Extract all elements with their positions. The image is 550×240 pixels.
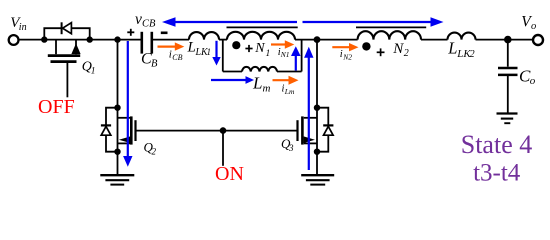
svg-text:1: 1 [207,47,212,57]
svg-text:L: L [252,74,262,93]
svg-text:N: N [254,41,265,56]
svg-text:CB: CB [172,53,182,62]
svg-text:in: in [19,22,27,33]
svg-text:N: N [392,41,404,57]
svg-text:2: 2 [404,48,409,59]
svg-text:2: 2 [470,49,475,60]
svg-text:v: v [135,11,142,28]
svg-text:3: 3 [288,143,294,153]
svg-text:Lm: Lm [284,87,295,96]
svg-text:ON: ON [215,163,244,185]
svg-text:o: o [530,75,536,87]
svg-text:CB: CB [142,19,156,30]
svg-text:t3-t4: t3-t4 [473,160,521,187]
svg-text:N2: N2 [342,53,352,62]
svg-text:o: o [531,21,536,32]
svg-text:m: m [263,83,271,95]
svg-text:OFF: OFF [38,96,75,118]
svg-text:1: 1 [266,49,271,59]
svg-text:State 4: State 4 [461,130,533,159]
svg-text:B: B [151,59,158,70]
svg-text:L: L [187,40,196,56]
svg-text:2: 2 [152,146,157,156]
svg-text:1: 1 [91,66,96,76]
svg-text:N1: N1 [280,50,290,59]
svg-text:L: L [447,39,457,58]
